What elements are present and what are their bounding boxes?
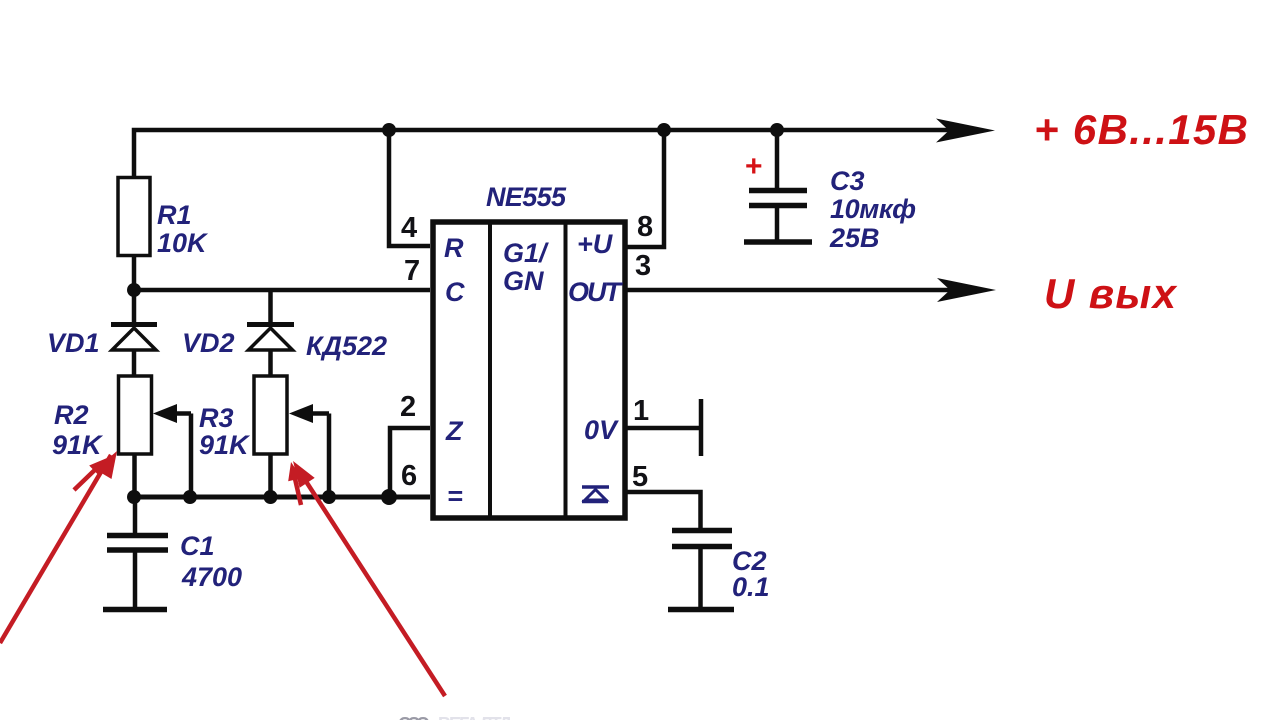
label R1 10K [157,200,209,258]
svg-text:OUT: OUT [568,277,624,307]
label C3 10мкф 25В [829,166,916,253]
svg-text:VD2: VD2 [182,328,235,358]
red pointer arrow to R3 long [293,461,445,696]
node dot A top rail / pin4 [382,123,396,137]
diode VD1 [111,291,157,377]
power arrowhead [936,119,995,143]
svg-text:ООО: ООО [398,714,430,720]
svg-text:1: 1 [633,395,649,427]
svg-text:VD1: VD1 [47,328,100,358]
svg-text:4: 4 [401,212,417,244]
svg-text:G1/: G1/ [503,238,549,268]
node dot rail R2 wiper [183,490,197,504]
diode VD2 [247,291,294,377]
node dot rail R2 [127,490,141,504]
label R3 91K [199,403,251,460]
svg-text:NE555: NE555 [486,182,567,212]
svg-text:2: 2 [400,391,416,423]
svg-text:0.1: 0.1 [732,572,770,602]
svg-text:6: 6 [401,460,417,492]
node dot B top rail / pin8 [657,123,671,137]
svg-text:R: R [444,233,464,263]
op-amp U1 NE555 IC body [433,222,625,518]
pin1 terminal bar [699,399,704,456]
wire R2 bottom [132,454,137,497]
svg-text:КД522: КД522 [306,331,387,361]
svg-text:+: + [745,150,763,183]
wire top power rail with R1 drop [134,130,950,178]
svg-text:4700: 4700 [181,562,242,592]
wire pin8 branch to top rail [625,130,664,247]
red pointer arrow to R2 short [74,458,107,490]
svg-text:GN: GN [503,266,544,296]
node dot rail R3 wiper [322,490,336,504]
svg-text:=: = [447,481,463,511]
svg-text:3: 3 [635,250,651,282]
node dot D R1 bottom [127,283,141,297]
wire bottom rail to pin6 [134,495,430,500]
resistor R1 [118,178,150,256]
capacitor C1 [103,497,168,610]
svg-text:10K: 10K [157,228,209,258]
svg-text:8: 8 [637,211,653,243]
wire pin5 stub [625,492,701,528]
node dot rail R3 [264,490,278,504]
svg-text:0V: 0V [584,415,619,445]
svg-text:Z: Z [445,416,464,446]
svg-text:91K: 91K [52,430,104,460]
wire R1 bottom [132,255,137,292]
svg-text:C1: C1 [180,531,215,561]
red pointer arrow to R3 short [288,462,302,505]
capacitor C3 polarized [744,191,812,243]
faint watermark bottom [398,714,512,720]
svg-text:C: C [445,277,465,307]
svg-text:91K: 91K [199,430,251,460]
wire pin1 stub [625,426,699,431]
wire rail node pin7 [134,288,430,293]
label C1 4700 [180,531,242,592]
wire C3 drop from top rail [775,130,780,189]
svg-text:R2: R2 [54,400,89,430]
label C2 0.1 [732,546,770,602]
node dot C top rail / C3 [770,123,784,137]
svg-text:U вых: U вых [1044,270,1178,317]
potentiometer R3 [254,376,329,495]
output arrowhead [937,278,996,302]
node dot rail pin2 [381,489,397,505]
svg-text:C3: C3 [830,166,865,196]
wire pin2 branch [390,428,430,497]
svg-text:+U: +U [577,229,614,259]
svg-text:ВЕГА ЛТД: ВЕГА ЛТД [438,714,512,720]
red pointer arrow to R2 long [0,451,117,643]
svg-text:7: 7 [404,255,420,287]
IC label G1/GN [503,238,549,296]
svg-text:25В: 25В [829,223,880,253]
svg-text:10мкф: 10мкф [830,194,916,224]
wire pin4 branch from top rail [389,130,430,246]
capacitor C2 [668,531,734,610]
svg-text:5: 5 [632,461,648,493]
label R2 91K [52,400,104,460]
svg-text:R3: R3 [199,403,234,433]
wire pin3 output [625,288,950,293]
wire R3 bottom [268,454,273,497]
IC threshold symbol pin5 [582,487,609,502]
potentiometer R2 [119,376,192,495]
svg-text:R1: R1 [157,200,192,230]
